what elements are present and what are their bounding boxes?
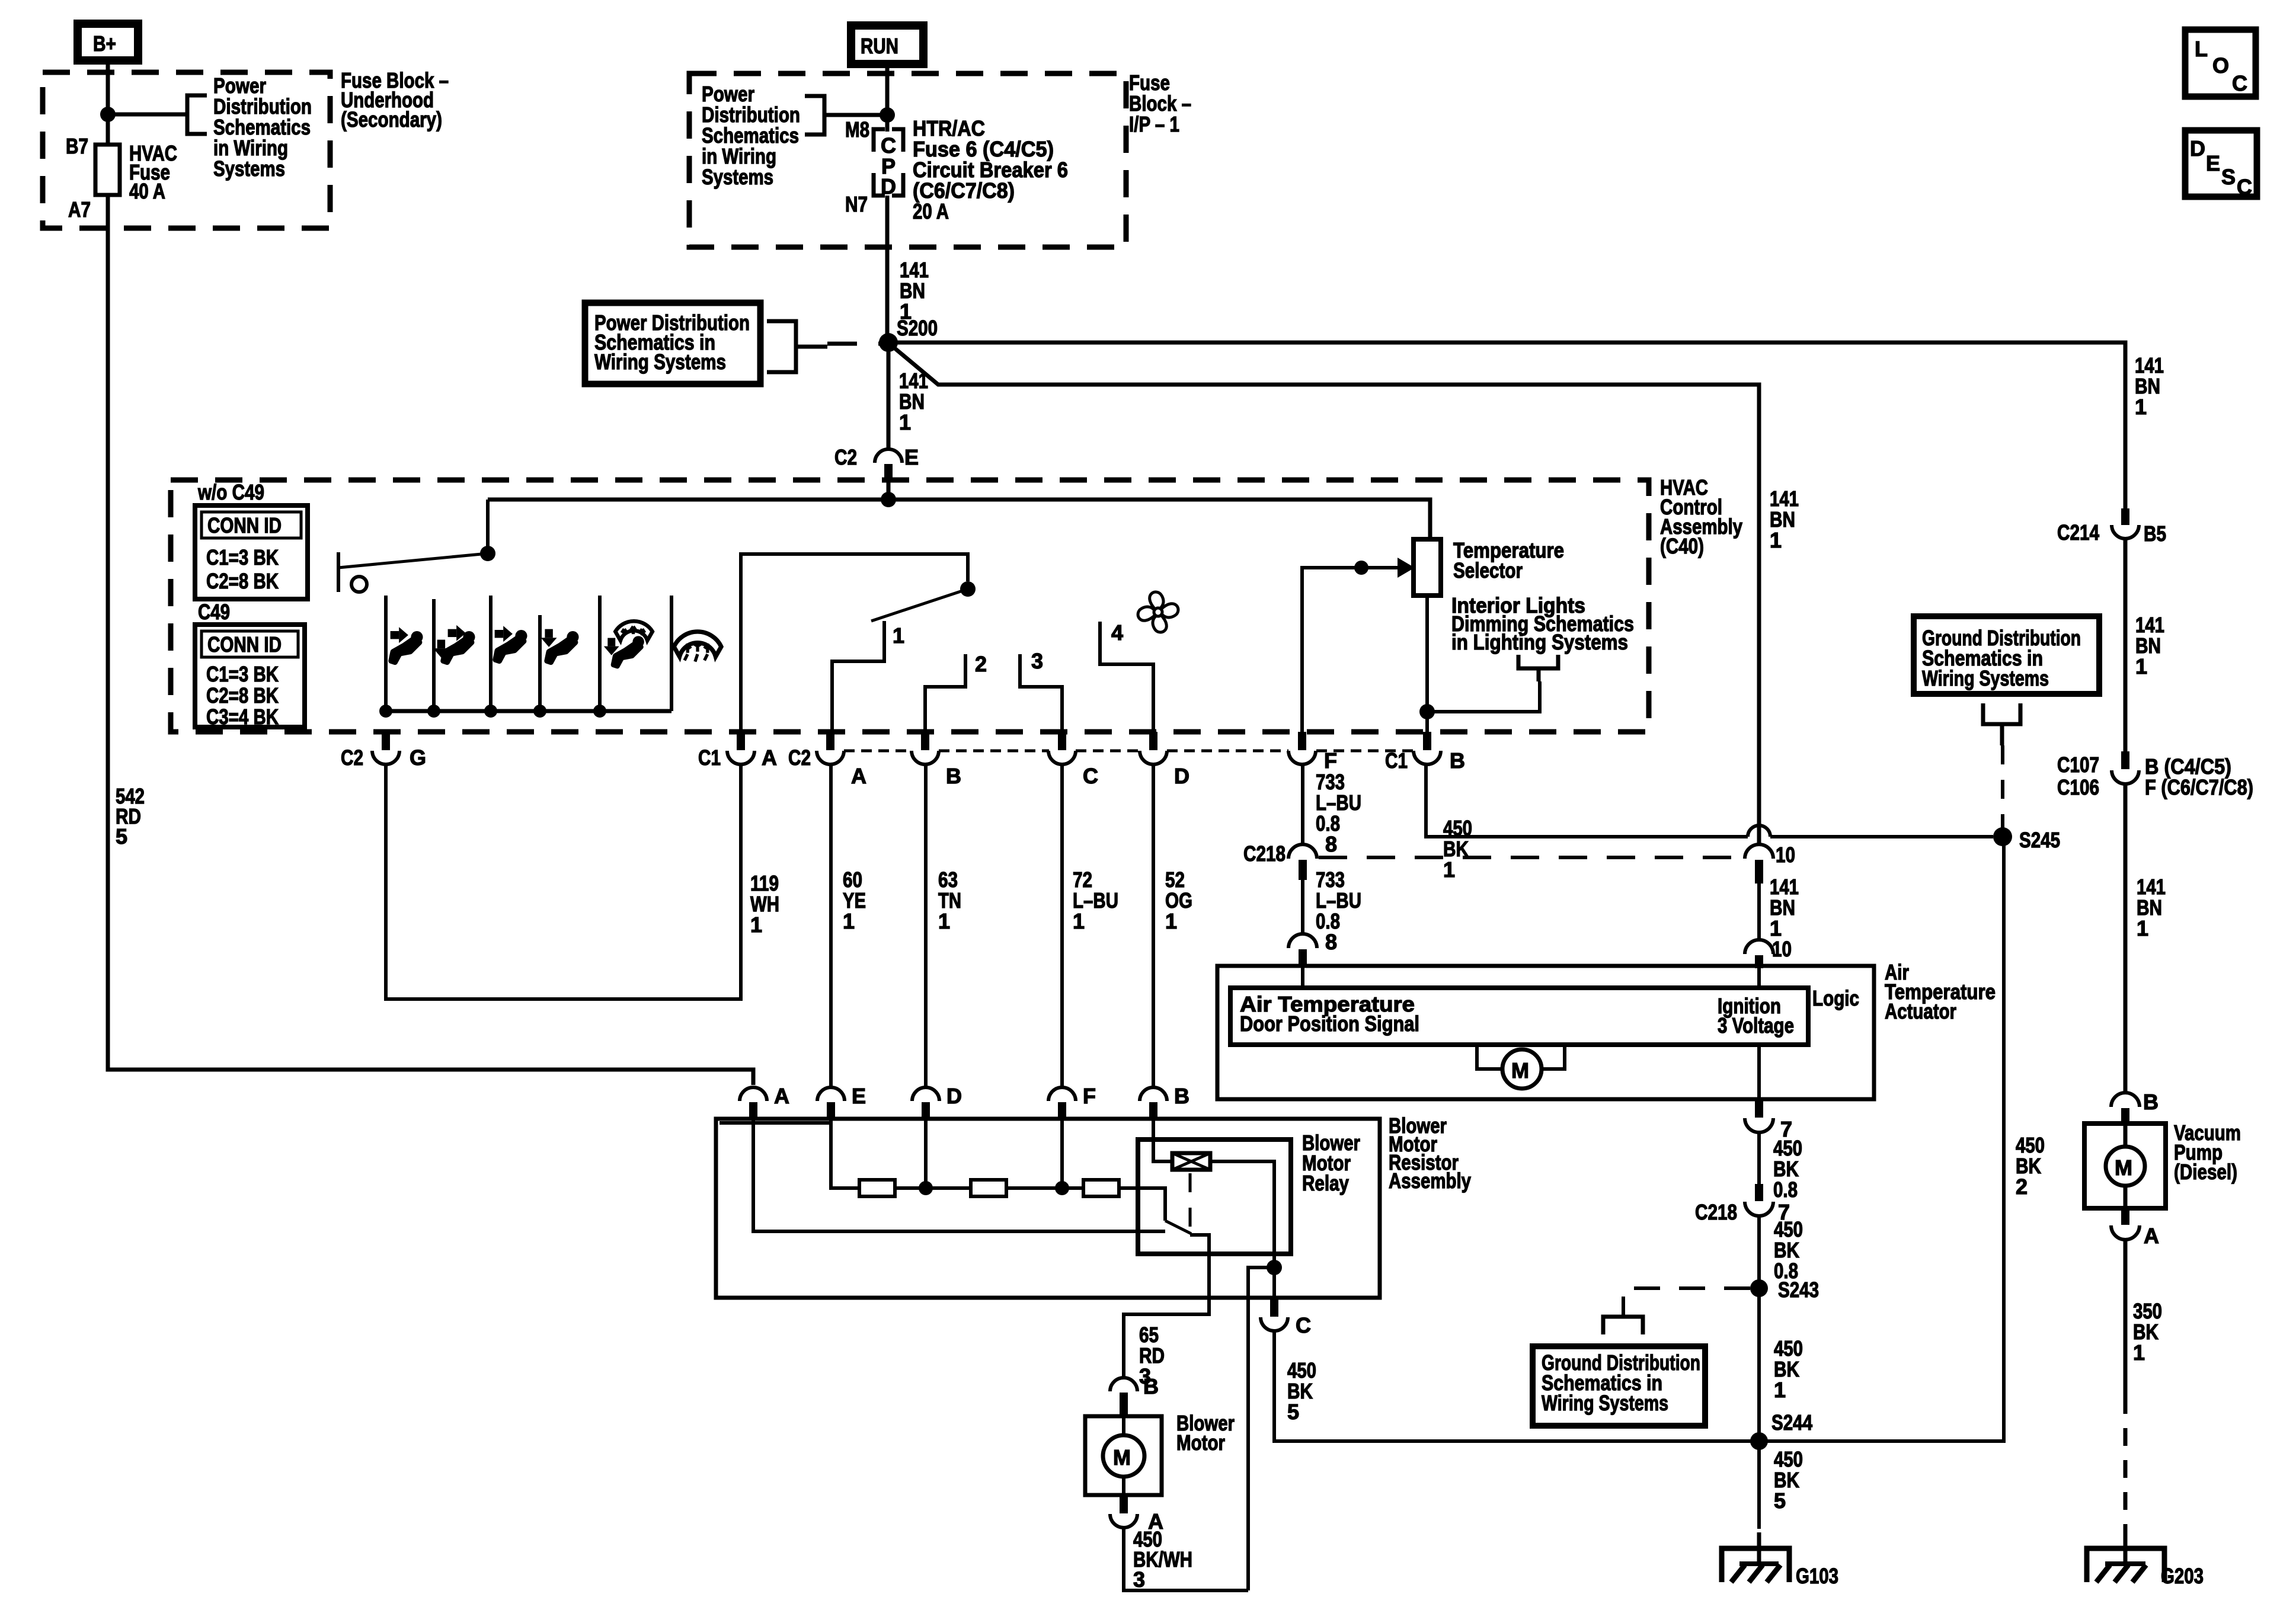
svg-text:1: 1 xyxy=(1774,1378,1786,1402)
fan switch throw 4 xyxy=(1100,622,1153,732)
wire: D to B, 52 OG 1 xyxy=(1152,764,1155,1089)
wire: G to C1/A loop, 119 WH 1 xyxy=(386,764,741,999)
fan switch throw 3 xyxy=(1020,654,1062,732)
connector C2 A xyxy=(788,732,866,788)
svg-text:S243: S243 xyxy=(1778,1278,1819,1302)
wire B+ down to fuse xyxy=(106,65,110,145)
connector B (resistor assembly) xyxy=(1140,1084,1189,1120)
svg-text:D: D xyxy=(946,1084,962,1108)
label: 141 BN 1 (above C2 E) xyxy=(899,369,928,434)
svg-text:C: C xyxy=(1296,1313,1311,1337)
svg-text:C2=8 BK: C2=8 BK xyxy=(206,683,279,708)
svg-text:Wiring Systems: Wiring Systems xyxy=(1922,666,2049,690)
connector A (resistor assembly) xyxy=(740,1084,789,1120)
bracket: boxed reference to S200 xyxy=(767,321,796,372)
svg-text:B: B xyxy=(2143,1090,2159,1114)
svg-text:B: B xyxy=(1143,1374,1159,1398)
RUN terminal xyxy=(851,25,923,64)
label: Blower Motor Relay xyxy=(1302,1131,1360,1195)
svg-text:1: 1 xyxy=(938,909,950,933)
svg-text:1: 1 xyxy=(1165,909,1177,933)
connector D (resistor assembly) xyxy=(912,1084,962,1120)
wire: F to C218, 733 L-BU 0.8 xyxy=(1301,764,1304,846)
svg-text:(C40): (C40) xyxy=(1660,534,1704,558)
connector: vacuum pump B xyxy=(2111,1090,2159,1125)
svg-text:C2=8 BK: C2=8 BK xyxy=(206,569,279,593)
label: Power Distribution Schematics in Wiring Systems (I/P) xyxy=(702,82,800,189)
actuator motor M xyxy=(1477,1045,1565,1089)
svg-text:20 A: 20 A xyxy=(913,199,949,223)
node S200 xyxy=(879,333,898,352)
node S244 xyxy=(1750,1432,1768,1450)
wire: B to D, 63 TN 1 xyxy=(924,764,928,1089)
wire to dimming bracket xyxy=(1427,681,1540,712)
wire: 450 BK 0.8 to C218 xyxy=(1757,1132,1761,1200)
svg-text:(Diesel): (Diesel) xyxy=(2174,1160,2237,1184)
connector C1 A (fan feed) xyxy=(698,732,777,770)
Fuse Block I/P dashed box xyxy=(689,73,1126,247)
label: 450 BK 2 xyxy=(2016,1133,2045,1199)
svg-text:w/o C49: w/o C49 xyxy=(197,480,264,504)
wire: C107 to vacuum pump 141 BN 1 xyxy=(2124,783,2128,1093)
relay contact to blower motor xyxy=(1124,1235,1209,1378)
svg-text:40 A: 40 A xyxy=(129,179,165,203)
icon: fan symbol xyxy=(1138,592,1178,632)
svg-text:A: A xyxy=(762,745,777,770)
wire: S200 branch diagonal to HVAC column xyxy=(891,345,1759,846)
svg-text:3 Voltage: 3 Voltage xyxy=(1718,1013,1794,1038)
label: Air Temperature Actuator xyxy=(1885,960,1996,1023)
mode switch contact stubs and bus xyxy=(379,596,671,718)
svg-text:A7: A7 xyxy=(68,197,91,222)
connector D xyxy=(1140,732,1189,788)
svg-text:B5: B5 xyxy=(2144,521,2166,546)
wire: tap to bracket (I/P) xyxy=(824,113,887,117)
node: coil/motor ground junction xyxy=(1267,1260,1282,1275)
svg-text:A: A xyxy=(851,764,866,788)
svg-text:1: 1 xyxy=(2135,395,2147,419)
svg-text:C218: C218 xyxy=(1695,1200,1737,1224)
svg-text:1: 1 xyxy=(893,623,904,648)
wire: C214 to C107 141 BN 1 xyxy=(2124,538,2128,751)
svg-text:B+: B+ xyxy=(93,31,116,56)
air temperature actuator logic box xyxy=(1217,966,1874,1099)
svg-text:O: O xyxy=(2212,53,2229,78)
connector: vacuum pump A xyxy=(2111,1208,2159,1248)
DESC legend box xyxy=(2185,130,2257,199)
wire: S200 to C2/E xyxy=(887,343,891,449)
svg-text:Door Position Signal: Door Position Signal xyxy=(1240,1012,1419,1036)
fan switch feed from C1/A xyxy=(741,554,968,732)
label: Fuse Block - I/P - 1 xyxy=(1129,71,1191,136)
wire: 542 RD 5 from fuse to blower resistor A xyxy=(108,195,753,1085)
svg-text:S200: S200 xyxy=(897,316,938,340)
logic signal box xyxy=(1230,988,1808,1045)
svg-text:1: 1 xyxy=(1770,528,1782,552)
svg-text:A: A xyxy=(2144,1224,2159,1248)
svg-text:2: 2 xyxy=(2016,1174,2028,1199)
label: Power Distribution Schematics in Wiring Systems (underhood) xyxy=(213,73,312,181)
node: M8 tap junction xyxy=(880,107,895,123)
wire: motor return 450 BK/WH 3 xyxy=(1124,1528,1248,1590)
label: HVAC Control Assembly (C40) xyxy=(1660,475,1742,558)
label: 450 BK 1 (S243-S244) xyxy=(1774,1336,1803,1402)
svg-text:C2: C2 xyxy=(834,445,857,469)
svg-text:M: M xyxy=(1113,1445,1131,1470)
bracket: power distribution reference (left) xyxy=(187,95,207,134)
wire: A to E, 60 YE 1 xyxy=(829,764,833,1089)
svg-text:Actuator: Actuator xyxy=(1885,999,1956,1023)
svg-text:Selector: Selector xyxy=(1453,558,1523,582)
label: Blower Motor Resistor Assembly xyxy=(1389,1113,1471,1193)
resistor R2 xyxy=(971,1180,1006,1196)
icon: defrost mode (windshield) xyxy=(674,632,721,662)
svg-text:B: B xyxy=(1450,748,1465,773)
icon: vent mode (person + arrow) xyxy=(391,627,423,662)
svg-text:G203: G203 xyxy=(2161,1564,2204,1588)
svg-text:2: 2 xyxy=(975,652,987,676)
connector C1 B xyxy=(1385,732,1465,773)
connector C218 pin 7 xyxy=(1695,1184,1790,1224)
wire: S244 right and up to S245 xyxy=(1759,837,2004,1441)
connector B xyxy=(912,732,961,788)
relay coil xyxy=(1172,1153,1210,1170)
svg-text:C2: C2 xyxy=(341,745,363,770)
svg-text:1: 1 xyxy=(2133,1340,2145,1365)
svg-text:C1=3 BK: C1=3 BK xyxy=(206,545,279,569)
svg-text:CONN ID: CONN ID xyxy=(207,632,282,657)
Fuse Block Underhood dashed box xyxy=(43,72,330,228)
wire: C to F, 72 L-BU 1 xyxy=(1060,764,1064,1089)
wire R3 to relay switch xyxy=(1119,1188,1165,1221)
fan switch throw 2 xyxy=(925,654,965,732)
connector F xyxy=(1288,732,1337,773)
svg-text:M: M xyxy=(2115,1156,2132,1180)
svg-text:F: F xyxy=(1324,748,1337,773)
bracket: power distribution reference (I/P) xyxy=(805,96,824,135)
CONN ID table 2 xyxy=(195,625,305,729)
svg-text:1: 1 xyxy=(2135,654,2147,678)
dashed wire: S245 up to ground reference bracket xyxy=(2001,745,2004,828)
wire: ignition 3 voltage output xyxy=(1757,1045,1761,1099)
wire below potentiometer xyxy=(1425,596,1429,732)
connector: actuator pin 10 (upper) xyxy=(1745,843,1795,884)
label: 542 RD 5 xyxy=(116,784,145,849)
ground G103 xyxy=(1722,1532,1838,1588)
svg-text:C218: C218 xyxy=(1243,841,1285,866)
icon: floor mode xyxy=(541,629,579,662)
blower motor resistor assembly box xyxy=(716,1119,1380,1298)
LOC legend box xyxy=(2185,30,2256,97)
wire R1 to R2 xyxy=(895,1186,971,1190)
resistor R3 xyxy=(1083,1180,1119,1196)
svg-text:3: 3 xyxy=(1031,649,1043,673)
wire: S244 down to G103, 450 BK 5 xyxy=(1757,1441,1761,1512)
connector C2 G xyxy=(341,732,426,770)
svg-text:8: 8 xyxy=(1325,832,1337,856)
svg-text:C: C xyxy=(2237,175,2252,199)
wire: dashed stub from power distribution box to S200 xyxy=(827,342,880,346)
boxed label: Ground Distribution Schematics in Wiring Systems (right) xyxy=(1914,616,2099,694)
arrow head into potentiometer xyxy=(1398,558,1415,578)
svg-text:D: D xyxy=(1174,764,1189,788)
svg-text:E: E xyxy=(904,445,919,469)
svg-text:C1: C1 xyxy=(698,745,721,770)
svg-text:N7: N7 xyxy=(845,192,868,216)
svg-text:8: 8 xyxy=(1325,930,1337,954)
svg-text:10: 10 xyxy=(1776,843,1795,867)
svg-text:C3=4 BK: C3=4 BK xyxy=(206,705,279,729)
svg-text:A: A xyxy=(774,1084,789,1108)
label: Fuse Block - Underhood (Secondary) xyxy=(341,68,449,132)
wire: C to S244, 450 BK 5 xyxy=(1274,1330,1759,1441)
label: Interior Lights Dimming Schematics in Lighting Systems xyxy=(1451,593,1634,654)
svg-text:1: 1 xyxy=(1073,909,1085,933)
svg-text:3: 3 xyxy=(1133,1567,1145,1592)
node: B+ tap junction xyxy=(100,107,116,122)
label: 141 BN 1 (right top) xyxy=(2135,353,2164,419)
svg-text:0.8: 0.8 xyxy=(1773,1177,1798,1202)
svg-text:C: C xyxy=(1083,764,1098,788)
svg-text:1: 1 xyxy=(1443,857,1455,882)
svg-text:C2: C2 xyxy=(788,745,811,770)
connector: blower motor A xyxy=(1110,1495,1163,1534)
svg-text:Logic: Logic xyxy=(1812,986,1859,1010)
connector C xyxy=(1048,732,1098,788)
svg-text:S: S xyxy=(2221,165,2236,189)
label: HTR/AC Fuse 6 Circuit Breaker 6 xyxy=(913,116,1068,223)
connector: actuator pin 7 xyxy=(1745,1099,1792,1141)
svg-text:1: 1 xyxy=(899,410,911,434)
wire RUN down xyxy=(885,68,890,132)
dashed actuation link xyxy=(1189,1173,1192,1228)
svg-text:S245: S245 xyxy=(2019,828,2060,852)
svg-text:Wiring Systems: Wiring Systems xyxy=(1542,1391,1668,1415)
svg-text:Wiring Systems: Wiring Systems xyxy=(594,350,726,374)
svg-text:(Secondary): (Secondary) xyxy=(341,107,442,132)
icon: bi-level mode xyxy=(433,625,475,662)
bracket: ground distribution reference (right) xyxy=(1983,703,2020,745)
wire: C218 to S243, 450 BK 0.8 xyxy=(1757,1215,1761,1440)
ground G203 xyxy=(2087,1532,2204,1588)
wire: internal supply bus xyxy=(488,500,1430,540)
wire: F into chain xyxy=(1060,1120,1064,1188)
svg-text:C214: C214 xyxy=(2057,520,2099,545)
fuse F: HVAC Fuse 40 A xyxy=(66,134,177,222)
connector: blower motor B xyxy=(1110,1374,1159,1416)
wire: E into resistor chain xyxy=(831,1120,859,1188)
HVAC connector row dotted line xyxy=(844,750,1414,753)
svg-text:CONN ID: CONN ID xyxy=(207,513,282,537)
connector F (resistor assembly) xyxy=(1048,1084,1096,1120)
CONN ID table 1 xyxy=(195,505,308,599)
bracket: ground distribution reference (left) xyxy=(1603,1317,1643,1334)
svg-text:G: G xyxy=(410,745,426,770)
svg-text:5: 5 xyxy=(116,824,127,849)
svg-text:D: D xyxy=(881,174,896,199)
wire hop: 450 BK 1 line over 141 BN wire xyxy=(1426,764,1748,837)
connector C214 B5 xyxy=(2057,508,2166,546)
node: F tap xyxy=(1055,1181,1069,1195)
fan switch wiper arm xyxy=(871,589,968,621)
relay switch arm xyxy=(1165,1221,1191,1234)
wires into logic box xyxy=(1301,966,1304,988)
svg-text:C1: C1 xyxy=(1385,748,1408,773)
boxed label: Ground Distribution Schematics in Wiring Systems (left) xyxy=(1533,1346,1705,1426)
svg-text:B: B xyxy=(946,764,961,788)
node: D tap xyxy=(919,1181,933,1195)
fan switch throw 1 xyxy=(832,621,884,732)
svg-text:Assembly: Assembly xyxy=(1389,1169,1471,1193)
svg-text:Relay: Relay xyxy=(1302,1171,1349,1195)
node: fan switch pivot xyxy=(960,581,976,597)
svg-text:Systems: Systems xyxy=(702,165,773,189)
connector C2 E xyxy=(834,445,919,482)
temperature selector potentiometer xyxy=(1414,538,1564,596)
resistor R1 xyxy=(859,1180,895,1196)
wire: junction to motor return riser xyxy=(1248,1267,1274,1590)
dashed line C218 to actuator column xyxy=(1319,856,1745,859)
dashed stub S243 to ground reference bracket xyxy=(1623,1288,1750,1315)
svg-text:4: 4 xyxy=(1111,620,1123,645)
icon: vent mode 2 xyxy=(495,626,527,661)
connector E xyxy=(817,1084,866,1120)
label: 65 RD 3 xyxy=(1139,1323,1165,1388)
node S245 xyxy=(1993,827,2012,846)
wire: coil to junction xyxy=(1210,1161,1274,1267)
svg-text:M: M xyxy=(1511,1058,1529,1083)
svg-text:F (C6/C7/C8): F (C6/C7/C8) xyxy=(2145,775,2253,799)
svg-text:I/P – 1: I/P – 1 xyxy=(1129,112,1179,136)
B+ terminal xyxy=(78,24,138,60)
svg-text:C106: C106 xyxy=(2057,775,2099,799)
wire: S200 main feed right to C214 xyxy=(888,343,2125,508)
boxed label: Power Distribution Schematics in Wiring Systems xyxy=(585,303,760,384)
wire: D into chain xyxy=(924,1120,928,1188)
svg-text:C107: C107 xyxy=(2057,753,2099,777)
wire: C2/E into HVAC, node at bus xyxy=(887,480,891,500)
svg-text:Systems: Systems xyxy=(213,156,285,181)
svg-text:B: B xyxy=(1174,1084,1189,1108)
wire: junction down to connector C xyxy=(1272,1267,1276,1298)
svg-text:1: 1 xyxy=(843,909,855,933)
node: dimming tap xyxy=(1419,704,1435,719)
connector: actuator pin 10 (lower) xyxy=(1745,937,1792,968)
node S243 xyxy=(1750,1279,1768,1297)
wire R2 to R3 xyxy=(1006,1186,1083,1190)
blower motor xyxy=(1085,1411,1235,1495)
circuit breaker CB6: C P D symbol xyxy=(874,129,903,199)
svg-text:C49: C49 xyxy=(198,600,230,624)
wire: B into relay coil xyxy=(1153,1120,1172,1161)
svg-text:1: 1 xyxy=(2137,916,2148,940)
label: 141 BN 1 xyxy=(900,258,929,324)
wire: 350 BK 1 to G203 xyxy=(2124,1238,2128,1396)
svg-text:E: E xyxy=(852,1084,866,1108)
svg-text:L: L xyxy=(2195,37,2208,61)
icon: defog mode (person + defrost + down arrow) xyxy=(604,621,653,666)
svg-text:RUN: RUN xyxy=(861,34,898,58)
svg-text:in Lighting Systems: in Lighting Systems xyxy=(1451,630,1628,654)
svg-text:Motor: Motor xyxy=(1176,1430,1225,1455)
connector: actuator pin 8 xyxy=(1288,934,1317,967)
svg-text:D: D xyxy=(2190,136,2205,161)
svg-text:5: 5 xyxy=(1774,1489,1786,1513)
mode switch: pivot and wiper xyxy=(338,500,495,592)
wiper arrow line from F column xyxy=(1302,568,1400,732)
svg-text:1: 1 xyxy=(750,913,762,937)
wire: A feed to relay common xyxy=(753,1120,1165,1231)
svg-text:C: C xyxy=(2232,71,2247,95)
wire: N7 to S200, 141 BN 1 xyxy=(885,196,890,343)
relay K: blower motor relay box xyxy=(1138,1140,1291,1254)
svg-text:F: F xyxy=(1083,1084,1096,1108)
svg-text:C1=3 BK: C1=3 BK xyxy=(206,662,279,686)
wire: 141 BN 1 between 10 connectors xyxy=(1757,884,1761,941)
wire: tap to bracket xyxy=(108,113,186,117)
svg-text:B7: B7 xyxy=(66,134,88,158)
wire: C218 to actuator pin 8, 733 L-BU 0.8 xyxy=(1301,880,1304,934)
svg-text:G103: G103 xyxy=(1796,1564,1838,1588)
connector C (resistor assembly) xyxy=(1261,1298,1311,1337)
label: 141 BN 1 (hvac right) xyxy=(1770,486,1799,552)
svg-text:10: 10 xyxy=(1772,937,1792,961)
HVAC Control Assembly dashed box xyxy=(171,480,1649,732)
svg-text:E: E xyxy=(2206,151,2220,175)
connector C107/C106 xyxy=(2057,751,2253,799)
svg-text:S244: S244 xyxy=(1771,1410,1812,1435)
vacuum pump (diesel) xyxy=(2084,1121,2241,1208)
connector C218 pin 8 xyxy=(1243,841,1317,880)
bracket: interior lights dimming xyxy=(1518,655,1558,681)
svg-text:5: 5 xyxy=(1287,1400,1299,1424)
svg-text:M8: M8 xyxy=(845,117,869,142)
